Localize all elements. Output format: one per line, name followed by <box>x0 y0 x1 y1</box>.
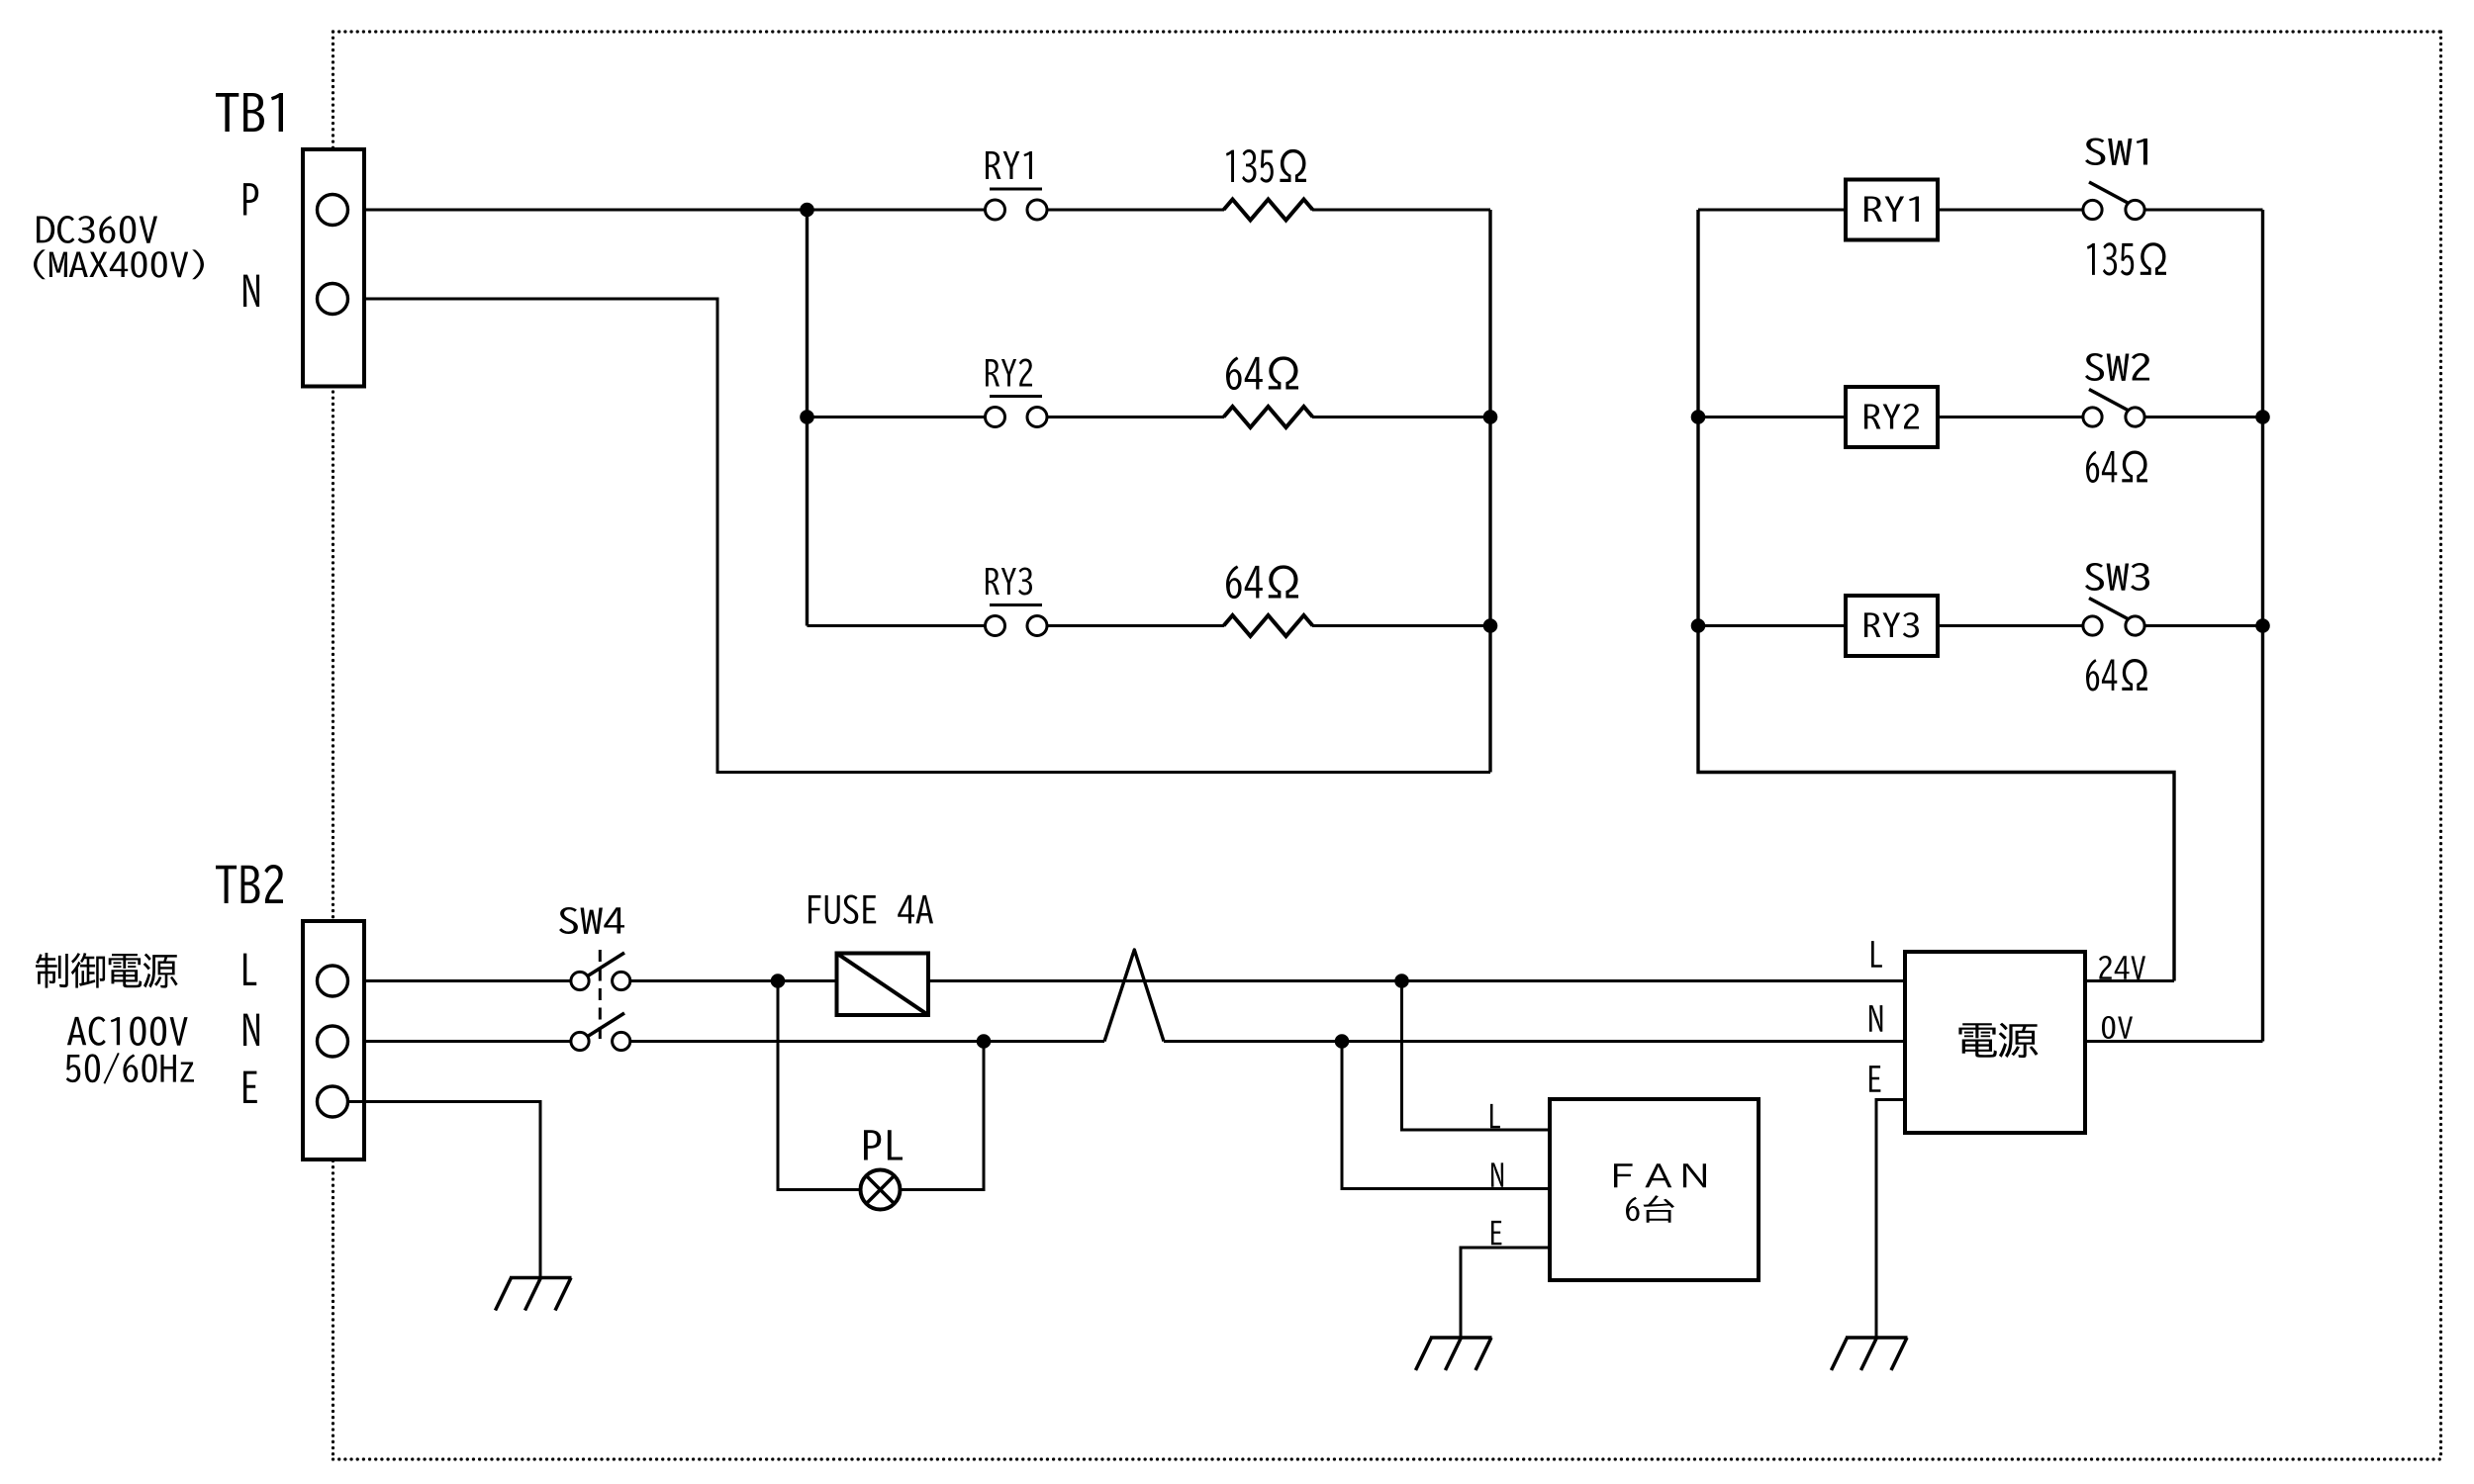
label terminal N <box>243 275 259 307</box>
wire N from TB1 down and right (N return) <box>348 299 1490 773</box>
label FAN input L <box>1490 1104 1500 1128</box>
wire 24V rail: coil bus down to power supply <box>1698 210 2174 981</box>
wire right switch bus down to 0V <box>2261 210 2264 1042</box>
relay contact RY1 <box>986 200 1048 220</box>
ground (FAN earth) <box>1416 1338 1492 1370</box>
junction node L fuse branch <box>771 974 786 988</box>
wire PSU E to ground <box>1876 1100 1905 1339</box>
wire left bus (P) <box>806 210 809 626</box>
wire right bus of resistor group <box>1488 210 1491 773</box>
label DC360V <box>37 216 157 243</box>
wire row3 bus to RY3 coil <box>1698 624 1846 627</box>
wire FAN E to ground <box>1461 1248 1550 1338</box>
label control power (kanji) <box>36 953 178 988</box>
junction node switch bus row2 <box>2255 410 2270 424</box>
label FAN input N <box>1491 1162 1503 1186</box>
wire PL branch down from L <box>778 981 984 1190</box>
resistor R3 64ohm <box>1224 615 1313 636</box>
wire row1 bus to RY1 coil <box>1698 209 1846 212</box>
wire SW1 to right bus <box>2136 209 2263 212</box>
resistor R2 64ohm <box>1224 407 1313 427</box>
pilot lamp PL <box>861 1170 901 1210</box>
junction node row2 right <box>1483 410 1498 424</box>
wire RY2 contact to resistor R2 <box>1037 416 1224 418</box>
label 50/60Hz <box>66 1053 194 1084</box>
label terminal L (TB2) <box>243 954 256 985</box>
wire RY1 coil to SW1 <box>1938 209 2093 212</box>
wire FAN L branch <box>1402 981 1551 1131</box>
junction node N FAN tap <box>1335 1034 1350 1049</box>
label SW1 <box>2085 139 2147 166</box>
wire L SW4 to fuse <box>621 979 837 982</box>
wire RY1 contact to resistor R1 <box>1037 209 1224 212</box>
wire N crossover to power supply <box>1164 1040 1905 1043</box>
label RY1 contact <box>986 151 1042 189</box>
wire SW3 to right bus <box>2136 624 2263 627</box>
relay contact RY3 <box>986 616 1048 636</box>
wire 24V output stub <box>2085 979 2174 982</box>
ground (TB2 earth) <box>496 1278 572 1311</box>
crossover hop on N wire <box>1104 950 1164 1042</box>
wire FAN N branch <box>1342 1042 1550 1189</box>
TB1 terminal block <box>303 149 364 387</box>
resistor R1 135ohm <box>1224 200 1313 221</box>
value 64 ohm (R3) <box>1226 565 1298 599</box>
junction node row2 left <box>800 410 814 424</box>
switch SW3 <box>2083 599 2144 636</box>
label FAN input E <box>1491 1221 1501 1245</box>
wire R3 to right bus <box>1312 624 1490 627</box>
junction node coil bus row3 <box>1691 618 1706 633</box>
wire E from TB2 to ground <box>348 1102 540 1278</box>
value 64 ohm (R2) <box>1226 356 1298 390</box>
wire row3 left bus to RY3 contact <box>808 624 986 627</box>
label terminal P <box>243 183 258 215</box>
fuse F1 4A <box>837 954 929 1016</box>
ground (PSU earth) <box>1832 1338 1908 1370</box>
label 0V <box>2102 1016 2133 1039</box>
switch SW4 (2-pole) <box>571 950 630 1051</box>
value 64 ohm (SW2 branch) <box>2086 451 2147 484</box>
wire R2 to right bus <box>1312 416 1490 418</box>
wire R1 to right bus <box>1312 209 1490 212</box>
junction node N PL return <box>977 1034 992 1049</box>
junction node row3 right <box>1483 618 1498 633</box>
wire 0V output to switch bus <box>2085 1040 2263 1043</box>
label 24V <box>2099 956 2145 979</box>
junction node coil bus row2 <box>1691 410 1706 424</box>
relay coil RY2 <box>1846 387 1938 447</box>
wire row2 left bus to RY2 contact <box>808 416 986 418</box>
wire N from TB2 to SW4 <box>348 1040 580 1043</box>
label PL <box>864 1130 903 1159</box>
label SW3 <box>2085 563 2149 591</box>
wire RY3 coil to SW3 <box>1938 624 2093 627</box>
label PSU input L <box>1871 941 1882 968</box>
value 64 ohm (SW3 branch) <box>2086 659 2147 692</box>
label RY2 contact <box>986 359 1042 397</box>
junction node L FAN tap <box>1394 974 1409 988</box>
junction node P bus top <box>800 203 814 218</box>
switch SW2 <box>2083 390 2144 427</box>
wire L fuse to power supply <box>928 979 1905 982</box>
label terminal E (TB2) <box>243 1071 257 1103</box>
relay contact RY2 <box>986 408 1048 427</box>
label TB2 <box>216 865 283 903</box>
label RY3 contact <box>986 568 1042 605</box>
value 135 ohm (SW1 branch) <box>2087 242 2166 275</box>
label PSU input N <box>1869 1005 1882 1032</box>
junction node switch bus row3 <box>2255 618 2270 633</box>
relay coil RY3 <box>1846 596 1938 656</box>
wire RY2 coil to SW2 <box>1938 416 2093 418</box>
label SW2 <box>2085 353 2149 381</box>
label TB1 <box>216 93 283 132</box>
label FUSE 4A <box>809 895 933 925</box>
label terminal N (TB2) <box>243 1014 259 1046</box>
value 135 ohm (R1) <box>1226 149 1306 183</box>
relay coil RY1 <box>1846 180 1938 240</box>
wire RY3 contact to resistor R3 <box>1037 624 1224 627</box>
wire SW2 to right bus <box>2136 416 2263 418</box>
power supply unit (DENGEN) <box>1905 952 2085 1133</box>
wire L from TB2 to SW4 <box>348 979 580 982</box>
wire N SW4 to crossover <box>621 1040 1104 1043</box>
label AC100V <box>67 1017 188 1047</box>
FAN unit box (6 fans) <box>1550 1099 1759 1280</box>
wire row2 bus to RY2 coil <box>1698 416 1846 418</box>
label (MAX400V) <box>34 249 204 279</box>
label SW4 <box>559 907 624 934</box>
switch SW1 <box>2083 182 2144 220</box>
label PSU input E <box>1869 1066 1880 1092</box>
TB2 terminal block <box>303 921 364 1159</box>
wire P from TB1 to RY1 contact <box>348 209 986 212</box>
